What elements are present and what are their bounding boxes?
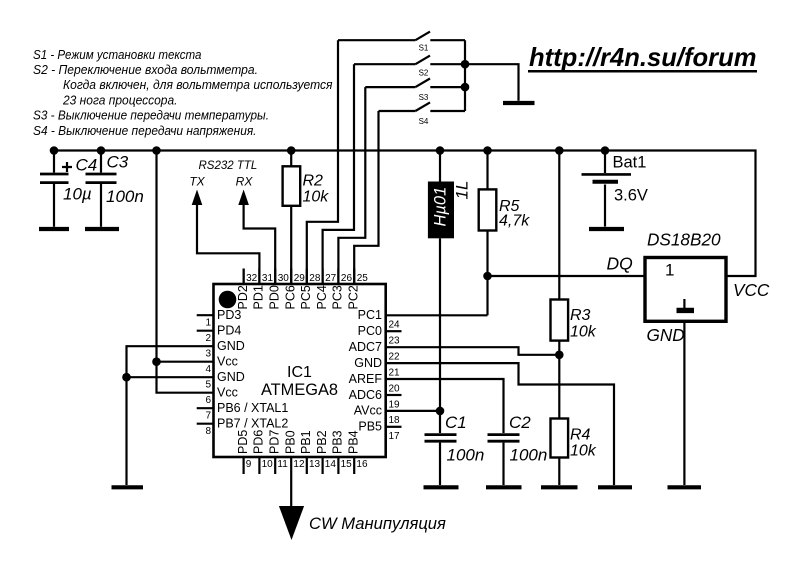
ground: battery negative [589, 227, 624, 231]
resistor R4 10k [551, 355, 597, 485]
capacitor C1 100n [425, 413, 485, 485]
svg-text:4: 4 [205, 364, 211, 375]
IC1 top pin stubs, numbers, labels [236, 269, 368, 310]
svg-text:10k: 10k [570, 323, 597, 340]
wire: PB0 pin 12 CW output [290, 457, 292, 506]
svg-text:23: 23 [389, 336, 401, 347]
svg-text:31: 31 [262, 273, 274, 284]
junction: switch common at S2 [461, 60, 470, 69]
svg-text:C1: C1 [445, 413, 467, 432]
pin 1 marker dot [219, 291, 237, 309]
svg-text:1: 1 [665, 261, 674, 280]
svg-text:30: 30 [278, 273, 290, 284]
svg-text:PB3: PB3 [331, 430, 345, 454]
svg-text:GND: GND [647, 325, 685, 345]
svg-text:25: 25 [357, 273, 369, 284]
svg-text:http://r4n.su/forum: http://r4n.su/forum [529, 44, 756, 72]
wire: VCC rail (top supply) to DS18B20 VCC pin [54, 151, 756, 277]
junction: rail at R3 [555, 146, 564, 155]
svg-text:20: 20 [389, 383, 401, 394]
svg-text:C2: C2 [509, 413, 531, 432]
ground: pin 21 [598, 485, 632, 489]
junction: R3/R4/ADC7 [555, 351, 564, 360]
wire: pin 23 PC0 stub [386, 330, 402, 332]
svg-text:100n: 100n [510, 445, 548, 464]
svg-text:C3: C3 [107, 152, 129, 171]
svg-text:CW Манипуляция: CW Манипуляция [309, 514, 446, 533]
junction: rail at Bat1 [601, 146, 610, 155]
IC1 right pin labels and numbers [349, 308, 400, 442]
switch S2 [354, 56, 465, 78]
svg-text:18: 18 [389, 415, 401, 426]
IC1 left pin labels and numbers [205, 308, 288, 437]
svg-text:11: 11 [277, 459, 288, 470]
svg-text:AVcc: AVcc [354, 404, 382, 418]
svg-text:ADC6: ADC6 [349, 388, 382, 402]
junction: rail at C4 [50, 146, 59, 155]
svg-text:15: 15 [341, 459, 353, 470]
svg-text:RS232 TTL: RS232 TTL [199, 160, 258, 172]
svg-text:IC1: IC1 [287, 364, 312, 381]
svg-text:PD7: PD7 [267, 430, 281, 454]
wire: GND branch from IC pins 3 and 5 [127, 346, 214, 485]
switch S4 [379, 102, 466, 126]
wire: DS18B20 GND to ground [683, 321, 685, 485]
IC IC1 ATMEGA8 [214, 284, 386, 457]
svg-text:16: 16 [356, 459, 368, 470]
svg-text:GND: GND [354, 356, 382, 370]
wire: switch common to ground [465, 64, 519, 101]
svg-text:1: 1 [205, 318, 211, 329]
svg-text:R4: R4 [570, 426, 591, 443]
capacitor C4 10µ (electrolytic) [40, 151, 97, 227]
wire: S3 to IC pin 26 [338, 87, 365, 284]
wire: pin 21 GND to ground [386, 363, 614, 485]
svg-text:10: 10 [262, 459, 274, 470]
battery Bat1 3.6V [582, 151, 648, 227]
svg-text:VCC: VCC [733, 280, 770, 300]
wire: pin 20 AREF to C2 [386, 379, 504, 433]
svg-text:19: 19 [389, 399, 401, 410]
svg-text:S2 - Переключение входа вольтм: S2 - Переключение входа вольтметра. [33, 62, 258, 77]
svg-text:10k: 10k [570, 443, 597, 460]
junction: rail at R5 [483, 146, 492, 155]
svg-text:PC1: PC1 [358, 308, 382, 322]
node RX (RS232 TTL input arrow) [236, 175, 276, 285]
svg-text:Vcc: Vcc [217, 355, 238, 369]
svg-text:C4: C4 [76, 155, 98, 174]
ground: DS18B20 [668, 485, 702, 489]
svg-text:Bat1: Bat1 [613, 154, 647, 172]
svg-text:5: 5 [205, 380, 211, 391]
wire: pin 22 ADC7 to R3/R4 divider [386, 347, 560, 355]
svg-text:1L: 1L [453, 181, 472, 200]
wire: pin 4 Vcc [157, 361, 214, 363]
svg-text:S2: S2 [419, 69, 429, 78]
wire: S1 to IC pin 28 [307, 40, 338, 284]
node TX (RS232 TTL output arrow) [189, 160, 259, 284]
junction: rail at C3 [97, 146, 106, 155]
svg-text:21: 21 [389, 367, 401, 378]
svg-text:RX: RX [236, 175, 254, 189]
ground: switches [503, 101, 535, 105]
svg-text:10k: 10k [303, 189, 330, 206]
svg-text:DS18B20: DS18B20 [647, 230, 721, 250]
wire: pin 19 ADC6 stub [386, 394, 402, 396]
svg-text:ATMEGA8: ATMEGA8 [261, 381, 338, 399]
svg-text:17: 17 [389, 431, 401, 442]
resistor R2 10k (reset pull-up) [283, 151, 330, 285]
svg-text:PD1: PD1 [252, 285, 266, 309]
svg-text:23 нога процессора.: 23 нога процессора. [62, 92, 177, 107]
svg-text:100n: 100n [106, 187, 144, 206]
svg-text:PD5: PD5 [236, 430, 250, 454]
svg-text:PD2: PD2 [236, 285, 250, 309]
wire: DQ net from R5 to DS18B20 [488, 275, 646, 277]
ground: under C2 [486, 485, 522, 489]
svg-text:S1: S1 [419, 44, 429, 53]
svg-text:AREF: AREF [349, 372, 383, 386]
svg-text:3: 3 [205, 349, 211, 360]
wire: pin 17 PB5 stub [386, 426, 402, 428]
svg-text:3.6V: 3.6V [614, 187, 648, 205]
svg-text:7: 7 [205, 411, 211, 422]
IC1 bottom pin stubs, numbers, labels [236, 430, 368, 474]
capacitor C2 100n [488, 413, 548, 485]
svg-text:PC5: PC5 [299, 285, 313, 309]
wire: S2 to IC pin 27 [323, 64, 354, 284]
svg-text:S4 - Выключение передачи напря: S4 - Выключение передачи напряжения. [33, 123, 257, 138]
svg-text:29: 29 [294, 273, 306, 284]
wire: switch common vertical [464, 40, 466, 111]
wire: S4 to IC pin 25 [354, 111, 378, 284]
svg-text:12: 12 [293, 459, 305, 470]
switch S1 [338, 32, 465, 53]
wire: pin 5 GND [127, 376, 214, 378]
junction: rail at R2 [287, 146, 296, 155]
switch S3 [365, 79, 465, 103]
svg-text:PB2: PB2 [315, 430, 329, 454]
junction: switch common at S3 [461, 83, 470, 92]
junction: AVcc at C1 [436, 407, 445, 416]
wire: pin 1 PD3 stub [197, 314, 214, 316]
svg-text:S3 - Выключение передачи темпе: S3 - Выключение передачи температуры. [33, 108, 269, 123]
svg-text:PB5: PB5 [358, 420, 382, 434]
svg-text:ADC7: ADC7 [349, 340, 382, 354]
resistor R3 10k [551, 151, 597, 355]
svg-text:GND: GND [217, 339, 245, 353]
svg-text:S1 - Режим установки текста: S1 - Режим установки текста [33, 47, 202, 62]
svg-text:R3: R3 [570, 307, 591, 324]
svg-text:GND: GND [217, 370, 245, 384]
svg-text:24: 24 [389, 320, 401, 331]
pin 1 internal ground symbol [683, 299, 685, 308]
ground: IC GND pins [112, 485, 144, 489]
svg-text:PC2: PC2 [346, 285, 360, 309]
svg-text:PD6: PD6 [252, 430, 266, 454]
svg-text:S4: S4 [419, 117, 429, 126]
svg-text:28: 28 [309, 273, 321, 284]
inductor L1 10µH [428, 151, 472, 434]
junction: R5 at DQ net [483, 272, 492, 281]
ground: under C1 [424, 485, 459, 489]
svg-text:PC6: PC6 [283, 285, 297, 309]
svg-text:PB0: PB0 [283, 430, 297, 454]
svg-text:PC0: PC0 [358, 324, 382, 338]
svg-text:Vcc: Vcc [217, 386, 238, 400]
ground: under C4 [39, 227, 69, 231]
resistor R5 4,7k (DQ pull-up) [479, 151, 531, 316]
svg-text:PC3: PC3 [331, 285, 345, 309]
svg-text:PD4: PD4 [217, 324, 241, 338]
capacitor C3 100n [86, 151, 144, 227]
svg-text:26: 26 [341, 273, 353, 284]
junction: rail at L1 [436, 146, 445, 155]
ground: under R4 [541, 485, 578, 489]
svg-text:22: 22 [389, 352, 401, 363]
svg-text:Hµ01: Hµ01 [431, 187, 449, 227]
junction: GND at pin 5 [122, 373, 131, 382]
svg-text:PB6 / XTAL1: PB6 / XTAL1 [217, 401, 288, 415]
wire: pin 2 PD4 stub [197, 330, 214, 332]
wire: pin 18 AVcc to C1/L1 [386, 410, 440, 412]
svg-text:PB4: PB4 [346, 430, 360, 454]
note: forum URL text [528, 44, 757, 72]
junction: rail at Vcc branch [152, 146, 161, 155]
wire: pin 7 XTAL1 stub [197, 407, 214, 409]
svg-text:14: 14 [325, 459, 337, 470]
svg-text:PB7 / XTAL2: PB7 / XTAL2 [217, 417, 288, 431]
svg-text:4,7k: 4,7k [499, 213, 530, 230]
wire: pin 24 PC1 to R5/DQ [386, 314, 488, 316]
svg-text:TX: TX [189, 175, 205, 189]
svg-text:DQ: DQ [607, 254, 634, 274]
svg-text:10µ: 10µ [63, 185, 92, 204]
wire: pin 8 XTAL2 stub [197, 423, 214, 425]
svg-text:8: 8 [205, 426, 211, 437]
node CW output arrow [279, 506, 304, 540]
svg-text:PB1: PB1 [299, 430, 313, 454]
svg-text:S3: S3 [419, 93, 429, 102]
svg-text:2: 2 [205, 333, 211, 344]
svg-text:Когда включен, для вольтметра: Когда включен, для вольтметра использует… [63, 77, 333, 92]
svg-text:R2: R2 [303, 173, 324, 190]
svg-text:100n: 100n [447, 445, 485, 464]
junction: Vcc at pin 4 [152, 357, 161, 366]
svg-text:PD0: PD0 [267, 285, 281, 309]
svg-text:PC4: PC4 [315, 285, 329, 309]
svg-text:27: 27 [325, 273, 337, 284]
svg-text:6: 6 [205, 395, 211, 406]
svg-text:9: 9 [246, 459, 252, 470]
ground: under C3 [85, 227, 119, 231]
wire: Vcc rail branch to IC pins 4 and 6 [157, 151, 214, 393]
note: S1-S4 legend text [33, 47, 333, 138]
svg-text:13: 13 [309, 459, 321, 470]
wire: pin 32 stub [243, 269, 245, 285]
svg-text:32: 32 [246, 273, 258, 284]
sensor DS18B20 (1-wire thermometer) [645, 230, 770, 346]
